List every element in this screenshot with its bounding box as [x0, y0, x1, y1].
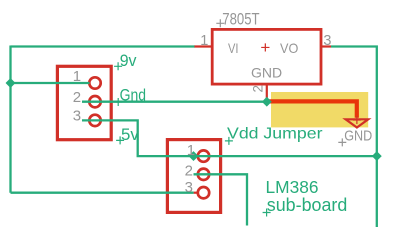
svg-text:VI: VI — [228, 40, 239, 56]
svg-text:9v: 9v — [120, 52, 138, 70]
wire net 5v from IC1 VO — [331, 47, 377, 228]
svg-text:7805T: 7805T — [222, 10, 259, 28]
junction 9v — [6, 78, 16, 88]
svg-text:1: 1 — [200, 33, 208, 49]
svg-text:2: 2 — [250, 85, 265, 93]
SV2 pin 1 circle — [198, 150, 209, 161]
5v origin cross — [116, 136, 124, 144]
svg-text:3: 3 — [185, 179, 193, 196]
svg-text:sub-board: sub-board — [267, 194, 348, 215]
wire net 9v top horizontal — [11, 45, 195, 47]
svg-text:5v: 5v — [121, 126, 140, 144]
junction 5v at SV2 pin1 — [189, 151, 199, 161]
SV2 pin 3 circle — [198, 187, 209, 198]
regulator IC1 7805T body — [212, 29, 321, 84]
connector SV1 body — [57, 66, 111, 139]
wire net Gnd from SV1 pin2 — [82, 101, 267, 103]
ground label origin cross — [338, 138, 346, 146]
Vdd Jumper origin cross — [225, 137, 233, 145]
wire net 5v SV2 pin1 to right — [194, 155, 377, 157]
sub-board origin cross — [263, 209, 271, 217]
wire net 9v to SV1 pin1 — [11, 82, 90, 84]
svg-text:1: 1 — [187, 142, 195, 159]
junction Gnd — [262, 97, 272, 107]
svg-text:Gnd: Gnd — [120, 86, 146, 104]
IC1 origin cross — [216, 19, 224, 27]
ground symbol GND — [346, 119, 369, 127]
wire net 5v from SV1 pin3 — [82, 120, 194, 156]
svg-text:+: + — [260, 38, 270, 57]
ground symbol origin cross — [353, 116, 361, 124]
svg-text:GND: GND — [344, 129, 372, 145]
wire net 9v bottom horizontal to SV2 pin3 — [11, 192, 194, 194]
wire net 9v left vertical — [9, 46, 11, 193]
svg-text:3: 3 — [73, 108, 81, 125]
svg-text:VO: VO — [280, 40, 298, 56]
connector SV2 body — [167, 140, 220, 213]
SV1 pin 2 circle — [89, 96, 100, 107]
svg-text:Vdd Jumper: Vdd Jumper — [227, 126, 323, 143]
wire from SV2 pin2 down — [194, 174, 248, 225]
IC1 pin 2 GND stub — [266, 84, 268, 99]
svg-text:GND: GND — [251, 64, 282, 80]
svg-text:2: 2 — [73, 89, 81, 106]
Gnd origin cross — [114, 98, 122, 106]
junction 5v right — [372, 151, 382, 161]
9v origin cross — [114, 62, 122, 70]
highlighted gnd jumper wire — [267, 101, 357, 117]
SV2 pin 2 circle — [198, 169, 209, 180]
IC1 pin 1 VI stub — [194, 45, 212, 47]
svg-text:2: 2 — [185, 162, 193, 179]
SV1 pin 3 circle — [89, 115, 100, 126]
svg-text:1: 1 — [73, 68, 81, 85]
IC1 pin 3 VO stub — [321, 45, 331, 47]
SV1 pin 1 circle — [89, 77, 100, 88]
svg-text:3: 3 — [323, 33, 331, 49]
net highlight (yellow) — [271, 92, 368, 127]
SV2 pin 3 stub — [194, 192, 198, 194]
